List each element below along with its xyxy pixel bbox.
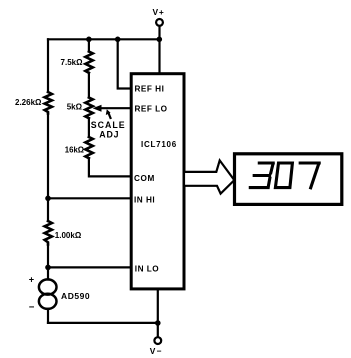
- svg-text:5kΩ: 5kΩ: [67, 103, 83, 112]
- op-amp U1 ICL7106 box: [131, 74, 184, 289]
- svg-text:1.00kΩ: 1.00kΩ: [55, 231, 82, 240]
- wire bottom rail: [48, 322, 158, 324]
- callout arrow SCALE ADJ: [108, 113, 110, 119]
- junction dot rail at REF HI column: [115, 37, 121, 43]
- wire AD590 to bottom rail: [47, 309, 49, 323]
- display block arrow: [184, 160, 234, 193]
- wire left column mid: [47, 114, 49, 222]
- wire IC bottom to V-: [157, 289, 159, 337]
- svg-text:+: +: [29, 274, 34, 284]
- svg-text:ICL7106: ICL7106: [141, 140, 177, 149]
- svg-text:−: −: [29, 302, 35, 313]
- wire left column upper: [47, 39, 49, 92]
- resistor R 2.26k: [45, 92, 52, 114]
- wire between pot and 16k: [88, 118, 90, 137]
- svg-text:ADJ: ADJ: [99, 129, 119, 139]
- junction dot bottom rail/V-: [155, 320, 161, 326]
- svg-text:16kΩ: 16kΩ: [65, 146, 84, 155]
- resistor R 16k: [85, 137, 92, 158]
- svg-text:V−: V−: [150, 346, 163, 356]
- digit 3: [250, 163, 273, 188]
- svg-text:IN LO: IN LO: [135, 265, 159, 274]
- svg-text:REF LO: REF LO: [135, 105, 168, 114]
- svg-text:V+: V+: [153, 7, 165, 17]
- node V+ terminal: [156, 19, 163, 26]
- junction dot IN LO: [45, 265, 51, 271]
- junction dot rail/V+: [157, 37, 163, 43]
- wire IN HI: [48, 197, 131, 199]
- wire IN LO: [48, 266, 131, 268]
- potentiometer R 5k: [85, 98, 92, 119]
- wire V+ drop to rail and IC top: [158, 26, 160, 74]
- wire top rail: [48, 38, 159, 40]
- node V- terminal: [154, 337, 161, 344]
- svg-text:IN HI: IN HI: [134, 196, 155, 205]
- resistor R 1.00k: [45, 221, 52, 245]
- resistor R 7.5k: [85, 52, 92, 73]
- wire REF HI branch: [118, 39, 132, 88]
- svg-text:2.26kΩ: 2.26kΩ: [15, 98, 42, 107]
- svg-text:REF HI: REF HI: [135, 84, 165, 93]
- svg-text:7.5kΩ: 7.5kΩ: [61, 58, 84, 67]
- wiper arrow of 5k pot: [101, 107, 132, 109]
- digit 7: [300, 163, 319, 188]
- svg-text:COM: COM: [134, 174, 155, 183]
- junction dot rail at 7.5k column: [86, 37, 92, 43]
- wire 7.5k column top: [88, 39, 90, 51]
- wire 16k to COM: [89, 158, 131, 176]
- digit 0: [275, 163, 292, 188]
- junction dot IN HI: [45, 196, 51, 202]
- current source AD590: [39, 279, 57, 294]
- wire left column lower: [47, 245, 49, 280]
- svg-text:AD590: AD590: [61, 291, 90, 301]
- wire between 7.5k and pot: [88, 73, 90, 98]
- display box: [235, 154, 342, 205]
